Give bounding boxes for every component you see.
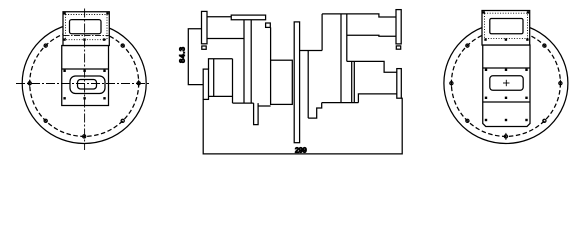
right body column vertical 2 (346, 14, 348, 62)
hanging tab plate (254, 103, 259, 125)
left body column vertical 1 (243, 20, 245, 103)
right body left vertical upper (321, 14, 323, 51)
right view body rectangle (white masks circle) (483, 45, 530, 127)
right view bolt hole 0deg (559, 82, 562, 85)
left view body rectangle (white masks circle) (62, 46, 109, 106)
right view hole tick marks (451, 80, 560, 140)
left view horizontal center line (16, 83, 151, 85)
left view bolt hole 0deg (137, 82, 140, 85)
left body right vertical (270, 27, 272, 60)
dimension 299 bracket (203, 98, 402, 154)
upper-left flange F1 foot (202, 46, 206, 49)
lower-right arm ring vertical 2 (353, 61, 355, 102)
left view flange face separation line (62, 68, 109, 70)
left view bolt circle (dashed) (30, 30, 139, 136)
bottom edge segment right of tab (258, 105, 271, 107)
left view vertical center line (84, 9, 86, 151)
right view connector screw dots (483, 11, 530, 41)
upper-left arm bottom edge (207, 38, 244, 40)
lower-right arm top edge (347, 61, 397, 72)
right view bolt hole 270deg (504, 135, 507, 138)
svg-text:299: 299 (295, 147, 307, 154)
lower-left arm right vertical (232, 59, 234, 103)
left view connector dash-dot line (64, 34, 109, 36)
right view bolt hole 225deg (466, 119, 469, 122)
svg-text:84.3: 84.3 (177, 46, 186, 62)
right hub vertical (307, 51, 309, 119)
right view outer circle (444, 23, 568, 144)
right view bolt hole 315deg (543, 119, 546, 122)
central rotary plate (294, 22, 299, 143)
right view connector dotted gasket outline (485, 13, 528, 38)
lower-left arm ring vertical (213, 59, 215, 97)
lower-left arm tube outline (209, 59, 233, 69)
left view bolt hole 45deg (121, 44, 124, 47)
right view flange screw dots (485, 69, 528, 122)
left view bolt hole 180deg (28, 82, 31, 85)
right view connector plate rectangle (482, 11, 530, 46)
right view gasket rounded rect (490, 76, 523, 91)
right view connector aperture rectangle (490, 19, 523, 34)
right view bolt hole 180deg (450, 82, 453, 85)
right view lower separation line (483, 101, 530, 103)
left view gasket stadium (70, 76, 105, 94)
upper-right flange F3 foot (396, 46, 400, 49)
left body bottom edge (233, 102, 254, 104)
lower-right arm bottom edge (358, 94, 396, 103)
left view waveguide aperture (78, 80, 97, 90)
right hub top edge (300, 50, 323, 52)
lower-right flange F4 (397, 69, 402, 99)
left view bolt hole 225deg (44, 119, 47, 122)
right view bolt hole 135deg (466, 44, 469, 47)
left body column vertical 2 (250, 20, 252, 103)
right view flange face separation line (483, 67, 530, 69)
left view hole tick marks (30, 80, 139, 87)
left view bolt hole 270deg (83, 135, 86, 138)
lower-left arm tube bottom (209, 95, 233, 97)
right view bolt hole 45deg (543, 44, 546, 47)
left view connector aperture rectangle (70, 20, 102, 34)
dimension 84.3 bracket (188, 29, 203, 85)
right body column vertical 1 (340, 14, 342, 103)
right view center cross (503, 80, 510, 86)
left hub box (271, 60, 293, 104)
right body bottom edge (322, 102, 359, 104)
left view flange screw dots (63, 70, 105, 100)
right hub staircase bottom (308, 103, 322, 119)
upper-left arm top edge (207, 16, 231, 18)
left view connector plate rectangle (63, 12, 109, 46)
lower-right arm ring vertical 1 (351, 61, 353, 102)
upper-right arm bottom edge (347, 35, 396, 36)
left view connector dotted gasket outline (66, 15, 108, 40)
upper-left flange F1 (202, 11, 208, 43)
left view bolt hole 135deg (44, 44, 47, 47)
left view outer circle (22, 23, 146, 144)
upper-right flange F3 (396, 10, 401, 44)
left view connector screw dots (63, 12, 108, 41)
left body corner box (266, 23, 271, 27)
right view bolt circle (dashed) (451, 30, 560, 136)
right body top edge (322, 14, 396, 17)
lower-left flange F2 (203, 69, 208, 99)
left view bolt hole 315deg (121, 119, 124, 122)
left body cover bar (231, 15, 265, 20)
